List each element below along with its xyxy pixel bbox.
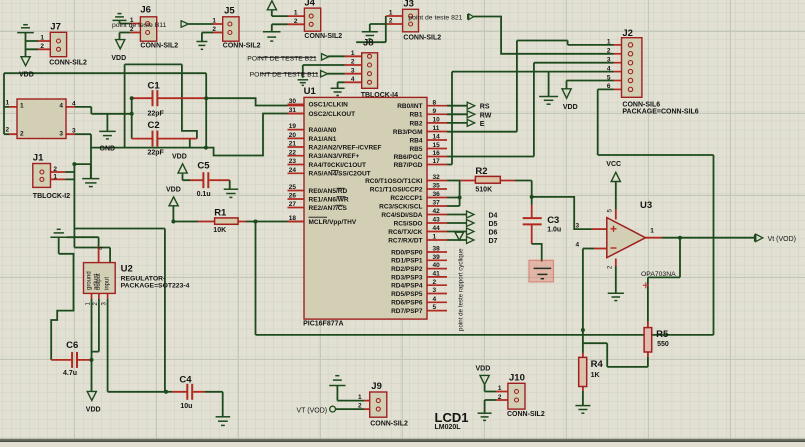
- power VDD below J7: [21, 57, 30, 66]
- J1 pin stubs: [51, 172, 66, 179]
- wires RC4-RC7 to D4-D7 terminals: [447, 215, 467, 241]
- svg-text:39: 39: [433, 254, 441, 261]
- wire J8.4 to ground: [338, 82, 345, 88]
- junction: [204, 96, 208, 100]
- connector J9: [370, 392, 387, 417]
- svg-text:36: 36: [433, 191, 441, 198]
- svg-text:1: 1: [53, 174, 57, 181]
- wire R4 to ground: [582, 391, 584, 405]
- svg-text:RA5/AN4/SS/C2OUT: RA5/AN4/SS/C2OUT: [309, 171, 371, 178]
- svg-text:point de teste 821: point de teste 821: [408, 15, 462, 22]
- wire U2 pin3 to C4: [108, 299, 166, 392]
- svg-text:CONN-SIL2: CONN-SIL2: [49, 60, 87, 67]
- svg-text:1: 1: [20, 103, 24, 110]
- svg-text:POINT DE TESTE B11: POINT DE TESTE B11: [250, 71, 319, 78]
- svg-text:RD6/PSP6: RD6/PSP6: [391, 300, 423, 307]
- connector J10: [508, 383, 525, 409]
- wire crystal pin3 down to ground: [75, 134, 91, 178]
- terminal RS: [467, 102, 475, 109]
- svg-text:OSC2/CLKOUT: OSC2/CLKOUT: [309, 111, 356, 118]
- wire C6 left loop: [51, 254, 73, 360]
- J7 pin stubs: [38, 41, 50, 49]
- junction: [678, 236, 682, 240]
- svg-text:1K: 1K: [591, 372, 600, 379]
- svg-text:4: 4: [59, 103, 63, 110]
- svg-text:RE2/AN7/CS: RE2/AN7/CS: [309, 205, 348, 212]
- wire pin32 to R2: [447, 180, 461, 182]
- svg-text:22: 22: [289, 149, 297, 156]
- svg-text:C3: C3: [547, 215, 559, 226]
- wire J2.1 to RB3: [447, 41, 614, 132]
- wire VDD arrow stem: [172, 206, 174, 221]
- wire J7 column: [25, 33, 27, 57]
- svg-text:RD4/PSP4: RD4/PSP4: [391, 283, 423, 290]
- wire upper link: [125, 64, 182, 147]
- svg-text:3: 3: [576, 223, 580, 230]
- svg-text:1: 1: [351, 50, 355, 57]
- svg-text:2: 2: [40, 43, 44, 50]
- wire J2.6 long route: [598, 89, 714, 335]
- terminal B11: [321, 71, 328, 78]
- pin stub 18: [288, 221, 305, 223]
- wire U2 pin1 column: [91, 299, 93, 391]
- svg-text:RC3/SCK/SCL: RC3/SCK/SCL: [379, 203, 422, 210]
- resistor R5: [644, 328, 652, 352]
- R2 pin stubs: [461, 180, 515, 182]
- wire J4 pins: [272, 10, 288, 32]
- svg-text:1: 1: [433, 234, 437, 241]
- svg-text:4: 4: [576, 242, 580, 249]
- svg-text:3: 3: [607, 57, 611, 64]
- svg-text:5: 5: [607, 74, 611, 81]
- wire J9.1 to ground: [337, 386, 364, 401]
- svg-text:D4: D4: [489, 213, 498, 220]
- svg-text:RB5: RB5: [409, 146, 422, 153]
- terminal VT (VOD) circle: [330, 406, 336, 412]
- microcontroller U1 PIC16F877A: [304, 97, 427, 319]
- wire pin36/pin37 tap: [447, 181, 460, 207]
- svg-text:RD5/PSP5: RD5/PSP5: [391, 291, 423, 298]
- op-amp pin2 stub: [615, 259, 617, 267]
- svg-text:35: 35: [433, 183, 441, 190]
- svg-text:1: 1: [294, 10, 298, 17]
- wires RB0-RB2 to RS RW E terminals: [447, 106, 467, 123]
- wire J6 terminal to J5.1: [188, 23, 213, 25]
- power VDD below J6: [116, 40, 125, 49]
- wire J2.4 to RB7: [447, 72, 614, 165]
- J8 pin stubs: [345, 56, 362, 82]
- svg-text:1: 1: [389, 9, 393, 16]
- svg-text:2: 2: [212, 26, 216, 33]
- wire to U2 top: [74, 248, 110, 263]
- svg-text:24: 24: [289, 167, 297, 174]
- svg-text:RB2: RB2: [409, 120, 422, 127]
- svg-text:RB4: RB4: [409, 137, 422, 144]
- ground below J4: [263, 32, 281, 41]
- terminal point de teste 821: [468, 14, 474, 20]
- svg-text:2: 2: [53, 166, 57, 173]
- svg-text:VDD: VDD: [166, 187, 181, 194]
- power VCC at U3: [611, 172, 620, 181]
- svg-text:U2: U2: [121, 264, 133, 275]
- svg-text:RB6/PGC: RB6/PGC: [394, 154, 423, 161]
- wire OSC1 net: [206, 98, 287, 105]
- regulator U2: [84, 263, 116, 294]
- crystal X1: [17, 99, 66, 139]
- power VDD at C5: [178, 164, 187, 173]
- svg-text:8: 8: [433, 99, 437, 106]
- connector J7: [50, 32, 66, 56]
- svg-text:RD7/PSP7: RD7/PSP7: [391, 308, 423, 315]
- wire J10 pins: [485, 385, 496, 413]
- svg-text:C1: C1: [148, 81, 161, 92]
- op-amp pin3 stub: [592, 228, 607, 230]
- svg-text:16: 16: [433, 150, 441, 157]
- svg-text:RB1: RB1: [409, 112, 422, 119]
- ground (inverted) above J7: [17, 25, 34, 33]
- svg-text:22pF: 22pF: [148, 110, 165, 117]
- svg-text:RA3/AN3/VREF+: RA3/AN3/VREF+: [309, 153, 360, 160]
- svg-text:CONN-SIL2: CONN-SIL2: [304, 33, 342, 40]
- svg-text:2: 2: [351, 59, 355, 66]
- J2 pin stubs: [614, 45, 622, 90]
- svg-text:32: 32: [433, 174, 441, 181]
- svg-text:PACKAGE=SOT223-4: PACKAGE=SOT223-4: [121, 282, 190, 289]
- svg-text:J6: J6: [140, 5, 151, 16]
- svg-text:1.0u: 1.0u: [547, 227, 561, 234]
- junction: [72, 162, 76, 166]
- svg-text:J4: J4: [304, 0, 315, 9]
- wire R2 to C3 node: [515, 181, 532, 197]
- wire pin2 to ground: [615, 266, 617, 293]
- svg-text:J1: J1: [33, 153, 44, 164]
- connector J6: [140, 17, 156, 41]
- U2 pin4 stub: [98, 247, 100, 263]
- svg-text:D5: D5: [489, 221, 498, 228]
- ground R4: [575, 406, 590, 414]
- svg-text:C2: C2: [148, 120, 160, 131]
- svg-text:42: 42: [433, 208, 441, 215]
- svg-text:RC4/SDI/SDA: RC4/SDI/SDA: [381, 212, 422, 219]
- wire long horizontal net: [256, 334, 714, 336]
- svg-text:point de teste rapport cycliqu: point de teste rapport cyclique: [458, 248, 465, 331]
- svg-text:10u: 10u: [180, 403, 192, 410]
- svg-text:1: 1: [358, 394, 362, 401]
- power arrow above J4: [267, 1, 276, 10]
- crystal pin stubs 1,2: [9, 107, 17, 134]
- wire C3 to ground: [532, 244, 542, 262]
- svg-text:25: 25: [289, 184, 297, 191]
- capacitor C1: [153, 90, 158, 106]
- svg-text:D7: D7: [489, 238, 498, 245]
- wire VDD rail: [4, 73, 206, 147]
- C4 pin stubs: [172, 391, 205, 393]
- svg-text:C4: C4: [179, 375, 192, 386]
- op-amp U3 OPA703NA: [607, 218, 646, 258]
- svg-text:CONN-SIL2: CONN-SIL2: [403, 35, 441, 42]
- ground op-amp pin2: [608, 293, 624, 300]
- crystal pin stubs 4,3: [66, 107, 75, 134]
- capacitor C2: [153, 131, 158, 147]
- terminal D5: [467, 220, 475, 227]
- wire J2.3 to RB6: [447, 63, 614, 157]
- svg-text:20: 20: [289, 132, 297, 139]
- svg-text:40: 40: [433, 262, 441, 269]
- svg-text:2: 2: [20, 131, 24, 138]
- ground (inverted) above J6: [113, 14, 127, 21]
- wire output to Vt terminal: [662, 237, 755, 239]
- connector J3: [403, 9, 419, 32]
- svg-text:11: 11: [433, 125, 440, 132]
- terminal D7: [467, 237, 475, 244]
- svg-text:U1: U1: [304, 86, 317, 97]
- svg-text:3: 3: [351, 67, 355, 74]
- svg-text:RC5/SDO: RC5/SDO: [394, 220, 423, 227]
- op-amp pin5 stub: [615, 209, 617, 219]
- wire ground drop GND: [106, 114, 108, 131]
- svg-text:RC6/TX/CK: RC6/TX/CK: [388, 229, 423, 236]
- svg-text:VDD: VDD: [563, 104, 578, 111]
- svg-text:2: 2: [358, 403, 362, 410]
- connector J4: [304, 8, 320, 31]
- svg-text:ground: ground: [87, 271, 93, 290]
- wire VT terminal to J9.2: [336, 408, 365, 410]
- svg-text:510K: 510K: [475, 186, 492, 193]
- svg-text:R5: R5: [656, 329, 669, 340]
- junction: [130, 96, 134, 100]
- ground above J8: [362, 32, 378, 39]
- wire J5.2 to ground: [202, 33, 213, 42]
- wire crystal left pins to rail: [4, 107, 9, 134]
- svg-text:CONN-SIL2: CONN-SIL2: [507, 411, 545, 418]
- op-amp pin4 stub: [594, 248, 607, 250]
- ground right of J1: [82, 179, 99, 187]
- svg-text:RA2/AN2/VREF-/CVREF: RA2/AN2/VREF-/CVREF: [309, 144, 382, 151]
- svg-text:C5: C5: [197, 161, 210, 172]
- terminal J6 net: [181, 21, 188, 27]
- wire ground stem on J2.4 net: [548, 72, 550, 97]
- capacitor C4: [187, 384, 192, 400]
- terminal E: [467, 119, 475, 126]
- svg-text:23: 23: [289, 158, 297, 165]
- svg-text:2: 2: [498, 394, 502, 401]
- terminal RW: [467, 111, 475, 118]
- svg-text:LM020L: LM020L: [435, 424, 462, 431]
- svg-text:2: 2: [607, 48, 611, 55]
- svg-text:RD0/PSP0: RD0/PSP0: [391, 249, 423, 256]
- svg-text:9: 9: [433, 108, 437, 115]
- ground GND net: [99, 131, 116, 139]
- connector J5: [223, 17, 239, 41]
- terminal B21: [322, 54, 329, 61]
- junction: [204, 146, 208, 150]
- pin stub 30: [288, 105, 305, 107]
- ground (inverted) near U2: [50, 229, 67, 237]
- power VDD below C6: [87, 391, 96, 400]
- pin stub 31: [288, 113, 305, 115]
- resistor R1: [215, 218, 239, 224]
- svg-text:1: 1: [498, 385, 502, 392]
- wire long drop to C4: [74, 229, 164, 392]
- wire feedback column to R4: [582, 249, 584, 353]
- svg-text:J3: J3: [403, 0, 414, 10]
- ground J10: [478, 413, 492, 420]
- wire U2 pin4 net: [67, 237, 99, 246]
- svg-text:TBLOCK-I2: TBLOCK-I2: [33, 193, 70, 200]
- svg-text:30: 30: [289, 98, 297, 105]
- power VDD at R1: [169, 197, 178, 206]
- wire U2 pin2 jog: [92, 299, 99, 352]
- junction: [581, 328, 585, 332]
- junction: [254, 220, 258, 224]
- wire inverted ground stem: [59, 237, 75, 254]
- selection highlight box: [529, 260, 554, 282]
- svg-text:J2: J2: [622, 28, 633, 39]
- junction: [130, 112, 134, 116]
- wire MCLR net down: [255, 222, 257, 335]
- svg-text:1: 1: [6, 100, 10, 107]
- junction: [530, 195, 534, 199]
- wire VDD to C5: [183, 174, 191, 181]
- power VDD above J10: [480, 375, 489, 384]
- wire R1 to MCLR: [246, 221, 288, 223]
- connector J8: [362, 53, 378, 89]
- svg-text:J8: J8: [363, 38, 374, 49]
- svg-text:CONN-SIL2: CONN-SIL2: [223, 42, 261, 49]
- svg-text:14: 14: [433, 134, 441, 141]
- svg-text:17: 17: [433, 158, 441, 165]
- wire J6 pins: [120, 20, 131, 39]
- svg-text:point de teste B11: point de teste B11: [112, 22, 167, 29]
- svg-text:VDD: VDD: [476, 366, 491, 373]
- svg-text:VDD: VDD: [86, 406, 101, 413]
- svg-text:J10: J10: [509, 373, 525, 384]
- svg-text:RE1/AN6/WR: RE1/AN6/WR: [309, 196, 349, 203]
- svg-text:LCD1: LCD1: [435, 410, 469, 425]
- svg-text:2: 2: [433, 279, 437, 286]
- svg-text:41: 41: [433, 271, 441, 278]
- svg-text:19: 19: [289, 123, 297, 130]
- ground (inverted) above J9: [329, 376, 345, 386]
- resistor R4: [579, 357, 587, 386]
- svg-text:1: 1: [212, 18, 216, 25]
- svg-text:44: 44: [433, 225, 441, 232]
- wire B11 terminal to J8.3: [327, 73, 344, 75]
- svg-text:38: 38: [433, 246, 441, 253]
- wire rail left vertical: [3, 73, 5, 134]
- svg-text:27: 27: [289, 201, 297, 208]
- svg-text:10: 10: [433, 117, 441, 124]
- J5 pin stubs: [213, 24, 223, 33]
- svg-text:1: 1: [650, 228, 654, 235]
- svg-text:4: 4: [433, 296, 437, 303]
- wire to C4: [166, 391, 172, 393]
- svg-text:22pF: 22pF: [148, 150, 165, 157]
- strike lines on test point labels: [258, 57, 318, 73]
- wire C4 to ground: [205, 392, 223, 417]
- svg-text:31: 31: [289, 107, 297, 114]
- C5 pin stubs: [190, 179, 230, 181]
- svg-text:D6: D6: [489, 230, 498, 237]
- svg-text:GND: GND: [100, 146, 116, 153]
- svg-text:VDD: VDD: [172, 153, 187, 160]
- C3 pin stubs: [531, 205, 533, 244]
- svg-text:3: 3: [59, 131, 63, 138]
- wire R5 bottom staircase: [583, 343, 648, 367]
- junction: [171, 220, 175, 224]
- svg-text:550: 550: [657, 341, 669, 348]
- resistor R2: [475, 176, 500, 183]
- svg-text:input: input: [104, 277, 110, 290]
- terminal D4: [467, 211, 475, 218]
- svg-text:RD3/PSP3: RD3/PSP3: [391, 274, 423, 281]
- wire C3 upper: [531, 197, 533, 205]
- J4 pin stubs: [288, 16, 305, 24]
- ground small J8.2: [298, 80, 309, 86]
- svg-text:R4: R4: [591, 359, 604, 370]
- svg-text:J7: J7: [50, 22, 61, 33]
- wire feedback to R5: [648, 238, 680, 322]
- wire VDD to R1: [173, 221, 198, 223]
- svg-text:VDD: VDD: [19, 71, 34, 78]
- wire VCC stem: [615, 182, 617, 210]
- svg-text:J5: J5: [224, 6, 235, 17]
- svg-text:RD2/PSP2: RD2/PSP2: [391, 266, 423, 273]
- svg-text:4: 4: [351, 76, 355, 83]
- svg-text:4: 4: [607, 65, 611, 72]
- svg-text:CONN-SIL2: CONN-SIL2: [370, 421, 408, 428]
- junction: [458, 196, 462, 200]
- svg-text:Vt (VOD): Vt (VOD): [768, 236, 796, 243]
- svg-text:CONN-SIL2: CONN-SIL2: [140, 42, 178, 49]
- capacitor C1 pin stubs: [132, 97, 205, 99]
- svg-text:OSC1/CLKIN: OSC1/CLKIN: [309, 102, 349, 109]
- ground J8.4: [331, 88, 345, 95]
- svg-text:VCC: VCC: [606, 161, 621, 168]
- svg-text:2: 2: [294, 18, 298, 25]
- svg-text:6: 6: [607, 83, 611, 90]
- wire OSC2 net: [206, 114, 288, 156]
- wire crystal pin4 to C1/C2 node: [75, 107, 132, 114]
- wire C5 to ground: [229, 180, 231, 189]
- svg-text:OPA703NA: OPA703NA: [641, 271, 676, 278]
- svg-text:VT (VOD): VT (VOD): [297, 407, 328, 414]
- svg-text:PACKAGE=CONN-SIL6: PACKAGE=CONN-SIL6: [622, 108, 698, 115]
- U2 bottom pin stubs: [92, 293, 108, 299]
- R5 pin stubs: [647, 322, 649, 357]
- svg-text:4.7u: 4.7u: [63, 370, 77, 377]
- junction: [90, 358, 94, 362]
- R1 pin stubs: [198, 221, 246, 223]
- ground on J2.4 net: [539, 97, 558, 105]
- wire C2 hop down: [189, 139, 191, 148]
- J6 pin stubs: [130, 24, 140, 33]
- svg-text:3: 3: [433, 287, 437, 294]
- svg-text:2: 2: [389, 17, 393, 24]
- wire inverting input: [583, 248, 594, 250]
- svg-text:37: 37: [433, 200, 441, 207]
- terminal Vt (VOD): [755, 234, 763, 241]
- capacitor C2 pin stubs: [132, 138, 197, 140]
- svg-text:output: output: [96, 273, 102, 290]
- svg-text:RD1/PSP1: RD1/PSP1: [391, 258, 423, 265]
- wire B21 terminal to J8.1: [328, 55, 344, 57]
- svg-text:U3: U3: [640, 200, 652, 211]
- wire J1 column: [73, 164, 75, 247]
- wire C3 node to op-amp +: [532, 197, 592, 229]
- PIC right pin stubs: [427, 106, 447, 311]
- capacitor C5: [203, 172, 208, 188]
